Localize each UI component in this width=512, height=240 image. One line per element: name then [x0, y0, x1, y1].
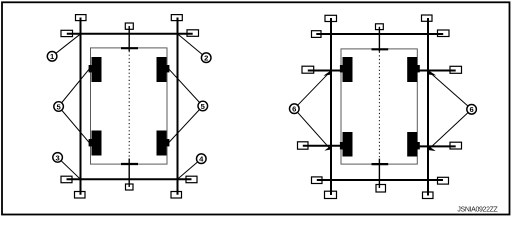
- arrowhead front-right junction: [428, 70, 437, 76]
- wire center line lower solid: [128, 159, 130, 188]
- leader lines callout 6 right: [429, 71, 472, 149]
- wire left vertical line: [80, 18, 82, 195]
- connector box top line left end: [61, 30, 73, 36]
- leader lines callout 5 left: [59, 69, 90, 143]
- sensor front-left (black bar): [89, 57, 102, 82]
- wire top horizontal line: [67, 33, 193, 35]
- callout circle 5 left: [54, 102, 64, 112]
- sensor rear-left right diagram: [340, 132, 353, 157]
- leader lines callout 6 left: [294, 71, 330, 148]
- wire sensor line rear-right: [417, 145, 456, 147]
- wire center line lower solid right diagram: [378, 159, 380, 188]
- connector box top-right above line right diagram: [422, 15, 433, 21]
- callout circle 4: [197, 154, 207, 164]
- connector box bottom line left end: [61, 176, 72, 183]
- connector box top line right end: [187, 30, 199, 37]
- connector box side rear-left: [298, 142, 309, 149]
- svg-text:6: 6: [469, 105, 473, 114]
- leader lines callout 5 right: [169, 69, 203, 143]
- connector box side front-left: [302, 66, 314, 73]
- sensor front-right right diagram: [407, 57, 420, 82]
- leader line callout 4: [178, 159, 201, 179]
- wire center dotted line: [128, 51, 130, 159]
- connector box side front-right: [450, 66, 462, 73]
- leader line callout 2: [178, 34, 206, 57]
- arrowhead front-left junction: [323, 70, 332, 76]
- arrowhead rear-left junction: [324, 145, 332, 151]
- wire sensor line front-right: [417, 70, 456, 72]
- wire sensor line rear-left: [303, 145, 342, 147]
- connector box bottom line left end right diagram: [312, 177, 323, 184]
- connector box side rear-right: [450, 142, 462, 149]
- sensor front-left right diagram: [340, 57, 353, 82]
- wire right vertical line right diagram: [427, 18, 429, 196]
- svg-text:3: 3: [55, 153, 59, 162]
- wire top horizontal line right diagram: [316, 33, 443, 35]
- svg-text:2: 2: [204, 54, 208, 63]
- callout circle 6 left: [290, 104, 300, 114]
- connector box below line right right diagram: [423, 192, 434, 199]
- wire center dotted line right diagram: [378, 52, 380, 159]
- connector box bottom-center: [126, 184, 134, 190]
- connector box top-right above line: [171, 15, 182, 21]
- connector box top-center: [125, 23, 133, 29]
- rear center mark (plus): [121, 163, 138, 165]
- svg-text:6: 6: [292, 105, 296, 114]
- callout circle 2: [201, 53, 211, 63]
- svg-text:JSNIA0922ZZ: JSNIA0922ZZ: [457, 206, 498, 213]
- sensor rear-right (black bar): [157, 131, 170, 156]
- wire center line upper solid right diagram: [378, 27, 380, 52]
- connector box bottom-center right diagram: [376, 185, 386, 193]
- callout circle 1: [47, 52, 57, 62]
- front center mark (plus): [121, 47, 138, 49]
- vehicle outline rectangle right diagram: [341, 49, 417, 164]
- connector box top-center right diagram: [376, 24, 384, 30]
- connector box top-left above line: [76, 15, 87, 21]
- connector box bottom line right end right diagram: [438, 177, 449, 184]
- leader line callout 1: [52, 34, 80, 56]
- callout circle 5 right: [198, 101, 208, 111]
- sensor rear-right right diagram: [407, 132, 420, 157]
- wire bottom horizontal line: [67, 178, 192, 180]
- connector box top line right end right diagram: [438, 30, 450, 37]
- connector box top line left end right diagram: [312, 31, 322, 38]
- callout circle 6 right: [467, 105, 477, 115]
- wire right vertical line: [177, 18, 179, 195]
- wire sensor line front-left: [308, 70, 342, 72]
- sensor rear-left (black bar): [89, 131, 102, 156]
- wire center line upper solid: [128, 26, 130, 51]
- front center mark right diagram (plus): [372, 48, 389, 50]
- connector box below line left right diagram: [325, 191, 337, 198]
- wire left vertical line right diagram: [330, 18, 332, 195]
- sensor front-right (black bar): [157, 57, 170, 82]
- connector box top-left above line right diagram: [325, 15, 337, 21]
- arrowhead rear-right junction: [428, 145, 436, 151]
- connector box bottom line right end: [186, 176, 197, 183]
- wire bottom horizontal line right diagram: [317, 179, 443, 181]
- connector box below line left: [75, 192, 86, 199]
- leader line callout 3: [58, 157, 80, 178]
- connector box below line right: [171, 192, 182, 199]
- vehicle outline rectangle: [91, 48, 168, 164]
- rear center mark right diagram (plus): [372, 163, 389, 165]
- callout circle 3: [53, 153, 63, 163]
